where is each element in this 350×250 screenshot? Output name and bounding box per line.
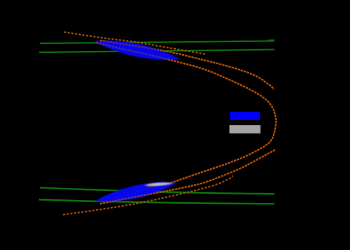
orange branch T2 (upper terminating branch, ends at exceptional point)	[100, 41, 274, 90]
orange branch T1 (uppermost short line, ends mid-plot)	[64, 32, 205, 54]
orange branch B1 (lowest short line)	[63, 176, 233, 215]
blue band overlay (bottom, dims dashes)	[95, 182, 177, 201]
blue band overlay (top, dims dashes)	[94, 41, 180, 60]
gray resonance band (bottom)	[144, 183, 174, 186]
green level line G1 (upper pair, top)	[40, 41, 275, 44]
green level line G4 (lower pair, bottom)	[39, 200, 275, 204]
green level line G2 (lower of upper pair)	[39, 50, 275, 53]
blue resonance band (bottom)	[95, 182, 177, 201]
orange branch B2 (lower terminating branch, ends at exceptional point)	[100, 150, 275, 204]
blue resonance band (top)	[94, 41, 180, 60]
legend gray box	[229, 125, 260, 133]
orange branch A (continuous branch through vertex)	[96, 43, 276, 187]
legend blue box	[230, 112, 260, 120]
green level line G3 (upper of lower pair)	[40, 188, 275, 194]
